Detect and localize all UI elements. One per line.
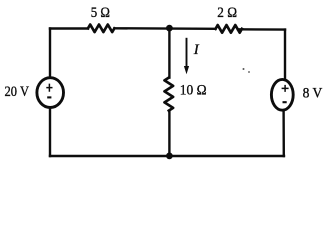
minus sign V1 xyxy=(47,96,51,98)
resistor R1 5ohm xyxy=(88,24,114,32)
wire top-middle horizontal xyxy=(114,27,215,30)
wire bottom horizontal xyxy=(50,155,284,157)
wire right vertical upper xyxy=(284,30,286,80)
svg-text:20 V: 20 V xyxy=(5,84,30,100)
current arrow I xyxy=(184,38,189,75)
wire left vertical lower xyxy=(49,108,51,157)
svg-text:8 V: 8 V xyxy=(303,85,323,101)
plus sign V2 xyxy=(282,85,289,92)
speck noise xyxy=(243,68,245,70)
node junction bottom xyxy=(166,153,173,160)
wire left vertical upper xyxy=(49,29,51,78)
wire right vertical lower xyxy=(282,110,285,156)
wire middle vertical lower xyxy=(168,111,170,156)
resistor R2 2ohm xyxy=(216,25,242,33)
svg-text:5 Ω: 5 Ω xyxy=(91,5,110,21)
voltage source V2 8V circle xyxy=(271,79,293,110)
minus sign V2 xyxy=(283,101,287,103)
wire top-right horizontal xyxy=(238,28,285,31)
resistor R3 10ohm xyxy=(165,78,174,111)
voltage source V1 20V circle xyxy=(37,78,64,108)
node junction top xyxy=(166,25,173,32)
wire middle vertical upper xyxy=(168,28,170,78)
plus sign V1 xyxy=(46,84,52,92)
wire top-left horizontal xyxy=(50,27,88,29)
svg-text:I: I xyxy=(193,42,200,58)
svg-text:10 Ω: 10 Ω xyxy=(180,83,207,99)
svg-text:2 Ω: 2 Ω xyxy=(217,5,237,21)
